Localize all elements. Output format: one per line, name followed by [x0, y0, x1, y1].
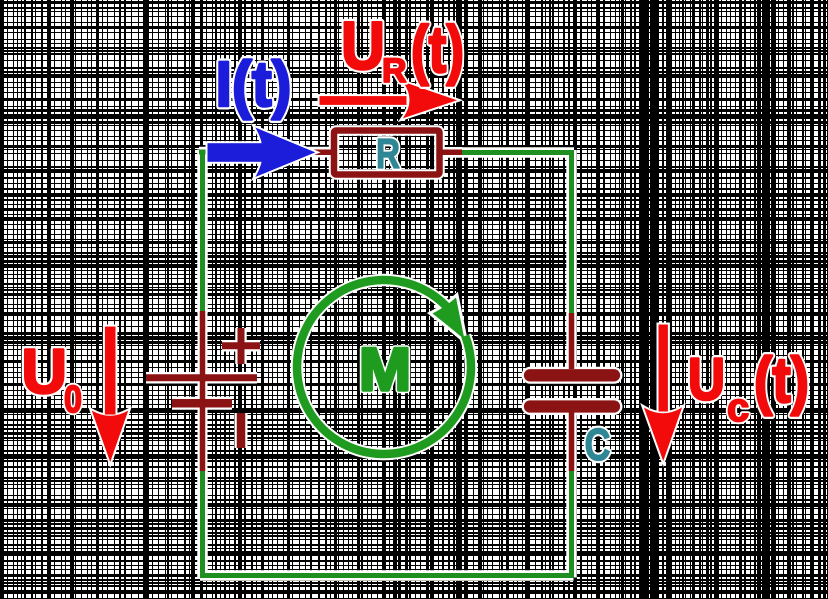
mesh M loop halo: [297, 280, 471, 454]
current arrow blue: [208, 129, 314, 177]
U_0 arrow red: [93, 327, 128, 461]
svg-text:U: U: [688, 347, 725, 413]
mesh M arrowhead: [433, 298, 465, 340]
resistor R box: [314, 131, 462, 175]
svg-text:R: R: [382, 52, 407, 90]
wire right branch through capacitor: [569, 150, 574, 578]
svg-text:U: U: [22, 337, 68, 407]
capacitor C symbol: [530, 313, 614, 471]
svg-text:(t): (t): [754, 344, 809, 416]
svg-text:0: 0: [64, 379, 82, 421]
mesh M loop arc: [297, 280, 471, 454]
wire left branch through battery: [200, 150, 205, 578]
svg-text:R: R: [376, 130, 400, 177]
U_R arrow red: [320, 83, 456, 118]
svg-text:c: c: [727, 386, 749, 430]
resistor R halo: [314, 131, 462, 175]
battery U0 halo: [146, 311, 260, 471]
battery U0 symbol: [146, 311, 260, 471]
wire bottom segment: [200, 573, 574, 578]
svg-text:I(t): I(t): [216, 48, 292, 120]
wire halo: [199, 150, 574, 578]
capacitor C halo: [530, 313, 614, 471]
svg-text:U: U: [341, 8, 385, 84]
wire top-left segment node A to resistor: [199, 150, 334, 155]
wire top-right segment resistor to node B: [440, 150, 574, 155]
svg-text:C: C: [585, 419, 611, 470]
U_C arrow red: [645, 325, 681, 460]
svg-text:M: M: [359, 336, 411, 403]
svg-text:(t): (t): [411, 12, 464, 86]
